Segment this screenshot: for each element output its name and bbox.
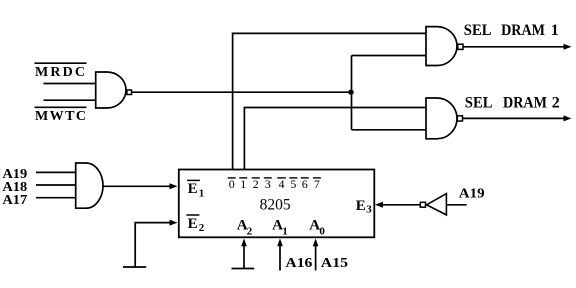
wire A19 input	[36, 171, 77, 173]
svg-text:7: 7	[314, 177, 320, 191]
arrowhead into E3	[375, 202, 383, 208]
svg-text:6: 6	[302, 177, 308, 191]
pin A2 label	[237, 217, 253, 237]
pin 2 label	[252, 177, 260, 191]
wire A2 to ground	[243, 245, 245, 269]
pin 4 label	[277, 177, 286, 191]
wire A18 input	[36, 184, 77, 186]
pin E2 label	[186, 215, 204, 234]
wire inverter output to E3	[381, 204, 420, 206]
arrowhead into A2	[241, 239, 247, 247]
svg-text:2: 2	[253, 177, 259, 191]
wire E2 to ground	[135, 223, 170, 267]
arrowhead into A0	[313, 239, 319, 247]
wire A16 into A1	[279, 245, 281, 271]
pin 3 label	[264, 177, 272, 191]
pin 1 label	[239, 177, 247, 191]
svg-text:0: 0	[229, 177, 235, 191]
nand U4 output bubble	[457, 116, 462, 121]
arrowhead SEL DRAM 1	[564, 44, 572, 50]
svg-text:1: 1	[282, 225, 288, 237]
svg-text:SELDRAM2: SELDRAM2	[465, 94, 560, 111]
inverter U6 bubble	[420, 202, 425, 207]
wire A17 input	[36, 197, 77, 199]
pin 0 label	[228, 177, 236, 191]
wire U2 output to node	[132, 91, 352, 93]
ground (E2)	[123, 266, 146, 268]
wire U3 output	[463, 46, 565, 48]
wire decoder output 1 to U4	[244, 108, 427, 170]
svg-text:2: 2	[247, 225, 253, 237]
inverter U6 (A19)	[427, 194, 447, 215]
svg-text:3: 3	[265, 177, 271, 191]
wire decoder output 0 to U3	[233, 33, 427, 169]
wire A15 into A0	[315, 245, 317, 271]
svg-text:E: E	[188, 216, 198, 232]
nand gate U2 (MRDC/MWTC)	[96, 72, 126, 108]
svg-text:A17: A17	[2, 193, 27, 208]
wire node vertical	[351, 56, 353, 130]
node MWTC label	[35, 107, 87, 124]
pin E3 label	[356, 198, 373, 216]
svg-text:0: 0	[319, 225, 325, 237]
pin E1 label	[187, 180, 204, 199]
svg-text:A19: A19	[459, 186, 485, 201]
pin 7 label	[313, 177, 321, 191]
wire U4 output	[463, 117, 566, 119]
arrowhead SEL DRAM 2	[564, 115, 572, 121]
svg-text:3: 3	[366, 204, 372, 216]
svg-text:MRDC: MRDC	[35, 65, 85, 80]
wire MRDC input	[44, 83, 97, 85]
pin A1 label	[272, 217, 288, 237]
svg-text:E: E	[188, 181, 198, 197]
arrowhead into A1	[277, 239, 283, 247]
svg-text:A16: A16	[285, 256, 312, 271]
svg-text:1: 1	[240, 177, 246, 191]
wire A19 into inverter	[446, 204, 466, 206]
svg-text:8205: 8205	[260, 197, 291, 214]
svg-text:MWTC: MWTC	[35, 109, 86, 124]
nand U3 output bubble	[458, 44, 463, 49]
nand gate U3 (SEL DRAM 1)	[426, 27, 457, 66]
wire node to U4 input	[352, 129, 428, 131]
svg-text:2: 2	[199, 222, 205, 234]
pin 6 label	[301, 177, 309, 191]
svg-text:SELDRAM1: SELDRAM1	[464, 22, 559, 39]
nand gate U4 (SEL DRAM 2)	[426, 98, 457, 139]
wire U5 output to E1	[103, 185, 171, 187]
svg-text:1: 1	[199, 188, 205, 200]
decoder U1 8205 body	[179, 170, 374, 238]
and gate U5 (A19 A18 A17)	[76, 163, 103, 208]
wire node to U3 input	[352, 55, 428, 57]
ground (A2)	[232, 268, 255, 270]
node MRDC label	[35, 63, 87, 80]
svg-text:E: E	[356, 198, 366, 214]
svg-text:4: 4	[279, 177, 285, 191]
svg-text:5: 5	[290, 177, 296, 191]
junction dot	[348, 90, 353, 95]
pin A0 label	[309, 217, 325, 237]
pin 5 label	[289, 177, 297, 191]
svg-text:A15: A15	[321, 256, 348, 271]
arrowhead into E2	[170, 220, 178, 226]
nand U2 output bubble	[127, 90, 132, 95]
arrowhead into E1	[170, 183, 178, 189]
wire MWTC input	[44, 99, 97, 101]
